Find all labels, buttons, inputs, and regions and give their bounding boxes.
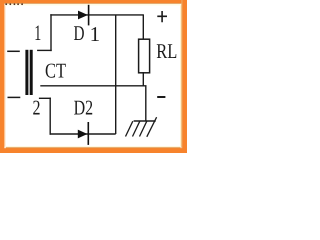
svg-text:2: 2: [33, 95, 41, 119]
wire cathode junction vertical: [115, 15, 117, 134]
diode D1 cathode bar: [88, 5, 90, 26]
diode D1 anode triangle: [78, 11, 88, 20]
ground bar: [134, 120, 156, 122]
svg-text:D2: D2: [74, 95, 94, 119]
svg-text:RL: RL: [156, 39, 177, 63]
border frame top: [0, 0, 187, 6]
label D1: [74, 21, 101, 46]
svg-text:1: 1: [90, 22, 101, 46]
wire terminal1 stub: [37, 49, 52, 51]
svg-text:CT: CT: [45, 58, 66, 82]
resistor RL body: [139, 39, 150, 73]
wire resistor bottom: [142, 72, 144, 86]
border frame bottom: [0, 146, 187, 153]
ground hatch 4: [147, 117, 157, 137]
border frame right: [180, 0, 187, 153]
label minus output: [157, 96, 165, 98]
ground hatch 1: [126, 121, 133, 136]
wire terminal2 vertical down: [49, 98, 51, 135]
ground hatch 2: [133, 121, 140, 136]
wire top rail: [50, 14, 144, 16]
diode D2 anode triangle: [78, 130, 88, 139]
svg-text:1: 1: [34, 20, 41, 45]
wire terminal2 stub: [39, 97, 51, 99]
wire bottom rail: [50, 133, 116, 135]
transformer T1 secondary winding bar right: [30, 50, 33, 95]
transformer T1 secondary winding bar left: [25, 50, 28, 95]
transformer T1 primary lead dash bottom: [8, 96, 21, 98]
dotted artifact top-left: [5, 3, 23, 5]
wire top rail to resistor: [142, 15, 144, 39]
ground hatch 3: [140, 121, 147, 136]
transformer T1 primary lead dash top: [7, 50, 20, 52]
wire center tap line: [40, 85, 146, 87]
diode D2 cathode bar: [87, 122, 89, 145]
wire to ground: [145, 86, 147, 121]
label plus output: [157, 11, 167, 22]
svg-text:D: D: [74, 21, 85, 45]
wire terminal1 vertical up: [50, 14, 52, 51]
border frame left: [0, 0, 6, 153]
